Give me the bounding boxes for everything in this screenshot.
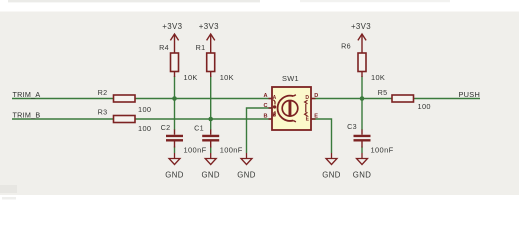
svg-text:GND: GND	[353, 171, 371, 180]
svg-text:R5: R5	[378, 88, 388, 97]
capacitor C2	[161, 123, 207, 154]
resistor R2	[98, 88, 152, 114]
svg-text:R3: R3	[98, 108, 108, 117]
junction node TRIM_A/R4	[172, 96, 177, 101]
svg-text:R1: R1	[196, 43, 206, 52]
svg-text:A: A	[263, 93, 267, 99]
resistor R1	[196, 43, 234, 82]
svg-text:10K: 10K	[220, 73, 234, 82]
wire pin E to GND (L shape)	[311, 119, 332, 153]
SW1 knob circle with shaft bar	[282, 100, 298, 116]
svg-text:10K: 10K	[184, 73, 198, 82]
svg-text:R6: R6	[341, 42, 351, 51]
svg-text:TRIM_B: TRIM_B	[13, 110, 41, 119]
svg-text:100: 100	[138, 124, 151, 133]
svg-text:100nF: 100nF	[184, 146, 207, 155]
svg-text:B: B	[273, 112, 277, 118]
capacitor C1	[194, 124, 243, 155]
ground (C3)	[353, 153, 371, 180]
svg-text:TRIM_A: TRIM_A	[13, 90, 41, 99]
svg-text:C1: C1	[194, 124, 204, 133]
svg-text:D: D	[314, 93, 318, 99]
svg-text:B: B	[263, 114, 267, 120]
capacitor C3	[347, 122, 393, 154]
svg-text:D: D	[305, 95, 309, 101]
wire R6 column vertical	[361, 76, 363, 153]
ground (C1)	[202, 153, 220, 180]
svg-text:10K: 10K	[371, 73, 385, 82]
svg-text:+3V3: +3V3	[162, 22, 182, 31]
svg-text:100nF: 100nF	[371, 146, 394, 155]
svg-text:R2: R2	[98, 88, 108, 97]
wire pin D to R5 and PUSH	[311, 98, 480, 100]
ground (C2)	[165, 153, 183, 180]
wire R4 column vertical	[174, 76, 176, 153]
svg-text:100: 100	[418, 102, 431, 111]
svg-text:100nF: 100nF	[220, 146, 243, 155]
rotary encoder switch SW1 body	[272, 74, 311, 130]
svg-text:R4: R4	[159, 43, 169, 52]
resistor R3	[98, 108, 152, 134]
svg-text:SW1: SW1	[282, 74, 299, 83]
wire R1 column vertical	[210, 76, 212, 153]
svg-text:E: E	[314, 113, 318, 119]
ground (pin E)	[322, 153, 340, 180]
SW1 pin stubs	[269, 99, 316, 120]
svg-text:100: 100	[138, 105, 151, 114]
ground (pin C)	[237, 153, 255, 180]
SW1 knob outer arc	[278, 95, 296, 122]
svg-text:+3V3: +3V3	[199, 22, 219, 31]
junction node TRIM_B/R1	[208, 117, 213, 122]
svg-text:GND: GND	[237, 171, 255, 180]
svg-text:C2: C2	[161, 123, 171, 132]
svg-text:GND: GND	[322, 171, 340, 180]
svg-text:PUSH: PUSH	[459, 90, 481, 99]
svg-text:GND: GND	[202, 171, 220, 180]
wire TRIM_A horizontal	[12, 98, 272, 100]
resistor R5	[378, 88, 431, 111]
svg-text:+3V3: +3V3	[351, 22, 371, 31]
svg-text:C3: C3	[347, 122, 357, 131]
svg-text:A: A	[273, 95, 277, 101]
svg-text:GND: GND	[165, 171, 183, 180]
resistor R6	[341, 42, 385, 82]
power +3V3 (R6)	[351, 22, 371, 53]
wire TRIM_B horizontal	[12, 118, 272, 120]
junction node R6/R5	[360, 96, 365, 101]
resistor R4	[159, 43, 198, 82]
power +3V3 (R4)	[162, 22, 182, 53]
power +3V3 (R1)	[199, 22, 219, 53]
svg-text:C: C	[263, 103, 267, 109]
SW1 wiper contact dot (C)	[273, 100, 276, 116]
SW1 push switch contacts (D/E)	[305, 100, 308, 116]
wire pin C to GND (L shape)	[247, 108, 273, 153]
